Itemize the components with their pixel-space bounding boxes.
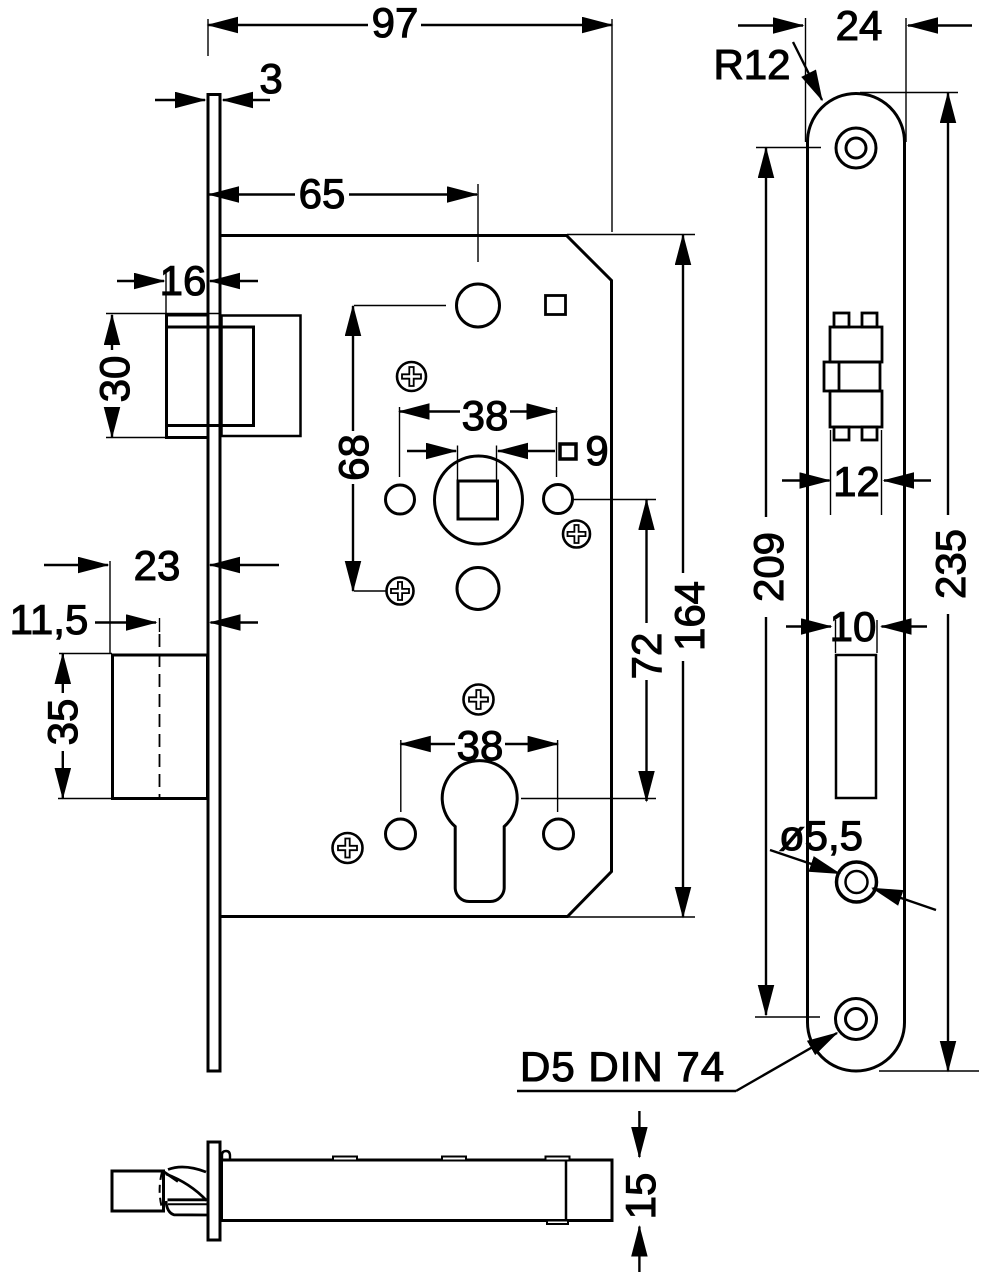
svg-text:11,5: 11,5	[10, 596, 89, 643]
deadbolt slot	[836, 655, 876, 798]
top screw hole	[836, 128, 876, 168]
dimension 38 upper	[400, 410, 557, 412]
dimension 97	[208, 24, 612, 26]
dimension 35	[62, 654, 64, 798]
body rivet tabs	[333, 1157, 570, 1225]
latch housing box	[222, 316, 301, 437]
svg-text:65: 65	[299, 170, 346, 217]
top hole	[457, 284, 500, 327]
euro cylinder profile	[442, 761, 517, 902]
svg-text:38: 38	[457, 722, 504, 769]
svg-text:ø5,5: ø5,5	[779, 812, 863, 859]
svg-text:38: 38	[462, 392, 509, 439]
dimension 164	[682, 235, 684, 917]
dimension 23	[44, 564, 279, 566]
dimension 10	[786, 625, 927, 627]
dimension 16	[117, 280, 258, 282]
small square cutout	[546, 296, 566, 315]
dimension 24	[738, 24, 972, 26]
svg-text:68: 68	[330, 434, 377, 481]
svg-text:164: 164	[666, 581, 713, 651]
faceplate strip (side view)	[208, 95, 220, 1072]
screw S1	[397, 362, 426, 391]
R12 leader	[793, 42, 822, 100]
svg-text:3: 3	[259, 55, 282, 102]
svg-text:97: 97	[372, 0, 419, 46]
svg-text:R12: R12	[713, 41, 790, 88]
svg-text:30: 30	[91, 356, 138, 403]
svg-text:15: 15	[617, 1173, 664, 1220]
dimension 11,5	[95, 621, 258, 623]
screw S5	[333, 833, 363, 863]
lock body outline	[221, 236, 612, 917]
o5,5 leaders	[770, 850, 936, 910]
follower hole	[435, 456, 523, 544]
screw S4	[464, 685, 494, 715]
deadbolt centerline	[159, 618, 161, 799]
hole left of follower	[386, 485, 415, 514]
hole right of follower	[544, 485, 573, 514]
dimension 38 lower	[401, 743, 558, 745]
faceplate strip (bottom view)	[208, 1142, 220, 1240]
dimension 12	[782, 479, 931, 481]
screw S2	[563, 521, 590, 548]
body end line	[565, 1160, 568, 1221]
latch front view	[824, 313, 882, 440]
svg-text:9: 9	[585, 427, 608, 474]
svg-text:72: 72	[623, 633, 670, 680]
svg-text:23: 23	[134, 542, 181, 589]
screw S3	[387, 578, 414, 605]
svg-text:12: 12	[833, 458, 880, 505]
middle hole o5,5	[837, 862, 877, 902]
hole left of cylinder	[386, 819, 416, 849]
hole below follower	[457, 568, 499, 610]
dimension square 9	[407, 450, 555, 452]
latch bolt	[167, 327, 254, 426]
svg-text:235: 235	[927, 529, 974, 599]
dimension 65	[209, 193, 477, 195]
dimension 209	[765, 148, 767, 1015]
bottom screw hole	[836, 999, 877, 1040]
faceplate front view	[808, 94, 905, 1072]
deadbolt	[113, 655, 208, 799]
latch bevel (bottom view)	[164, 1167, 208, 1215]
bottom view body	[222, 1160, 613, 1221]
dimension 72	[645, 500, 647, 801]
dimension 3	[155, 99, 270, 101]
svg-text:24: 24	[836, 2, 883, 49]
follower square	[458, 481, 498, 519]
latch head (bottom view)	[112, 1171, 164, 1211]
square symbol for 9	[560, 444, 576, 459]
svg-text:209: 209	[745, 532, 792, 602]
svg-text:16: 16	[160, 257, 207, 304]
dimension 68	[352, 306, 354, 591]
dimension 235	[947, 93, 949, 1071]
dimension 30	[111, 315, 113, 437]
hole right of cylinder	[544, 819, 574, 849]
latch spring bump	[222, 1151, 230, 1161]
latch head hidden edge	[160, 1172, 163, 1210]
latch head	[167, 315, 209, 438]
dimension 15	[638, 1111, 640, 1272]
D5 leader and underline	[517, 1033, 837, 1091]
svg-text:D5 DIN 74: D5 DIN 74	[520, 1043, 725, 1090]
svg-text:10: 10	[830, 603, 877, 650]
svg-text:35: 35	[39, 699, 86, 746]
